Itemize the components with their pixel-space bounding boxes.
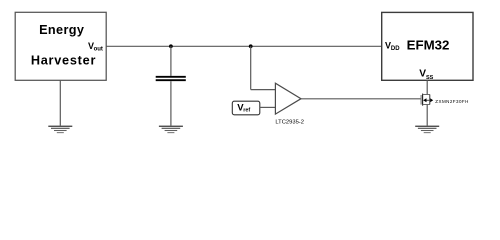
svg-text:SS: SS — [426, 75, 434, 81]
svg-text:ZXMN2F30FH: ZXMN2F30FH — [435, 99, 469, 104]
svg-text:ref: ref — [243, 107, 250, 113]
svg-text:LTC2935-2: LTC2935-2 — [275, 119, 304, 125]
svg-text:DD: DD — [391, 46, 400, 52]
svg-text:EFM32: EFM32 — [407, 38, 450, 53]
svg-text:Harvester: Harvester — [31, 54, 96, 68]
svg-text:Energy: Energy — [39, 23, 84, 37]
svg-text:out: out — [94, 47, 103, 53]
